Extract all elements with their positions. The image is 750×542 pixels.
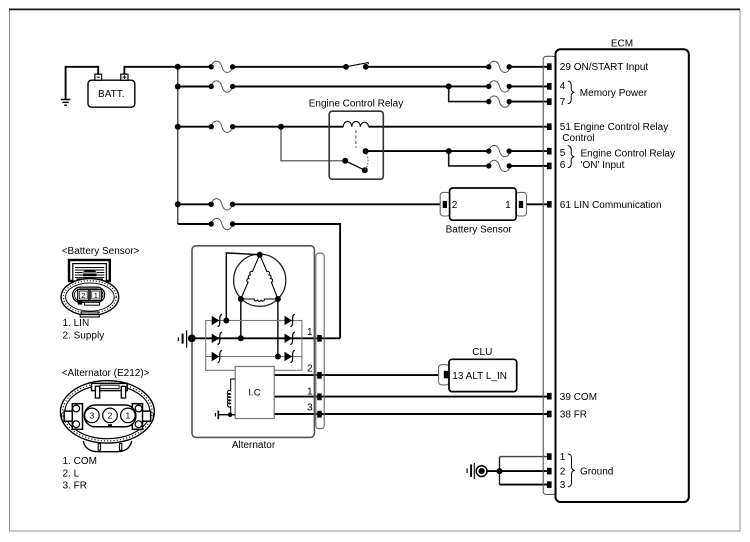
svg-text:ECM: ECM — [611, 38, 633, 49]
svg-text:Engine Control Relay: Engine Control Relay — [581, 149, 676, 160]
svg-text:Memory Power: Memory Power — [580, 88, 648, 99]
svg-text:39 COM: 39 COM — [560, 392, 597, 403]
svg-text:Alternator: Alternator — [232, 440, 276, 451]
svg-text:Control: Control — [562, 133, 594, 144]
svg-text:2: 2 — [452, 200, 458, 211]
svg-text:2: 2 — [81, 291, 85, 300]
svg-text:Ground: Ground — [580, 467, 613, 478]
svg-text:5: 5 — [560, 148, 566, 159]
svg-text:1: 1 — [560, 452, 566, 463]
svg-text:6: 6 — [560, 160, 566, 171]
svg-text:7: 7 — [560, 97, 566, 108]
svg-text:2. L: 2. L — [63, 468, 80, 479]
svg-text:1: 1 — [126, 411, 131, 421]
svg-text:3: 3 — [560, 480, 566, 491]
svg-text:38 FR: 38 FR — [560, 409, 587, 420]
svg-text:<Alternator (E212)>: <Alternator (E212)> — [62, 368, 150, 379]
svg-text:I.C: I.C — [248, 388, 260, 399]
svg-text:2: 2 — [560, 467, 566, 478]
svg-text:CLU: CLU — [472, 347, 492, 358]
svg-text:2: 2 — [307, 364, 313, 375]
svg-text:4: 4 — [560, 81, 566, 92]
svg-text:1: 1 — [307, 327, 313, 338]
svg-text:3: 3 — [90, 411, 95, 421]
svg-text:<Battery Sensor>: <Battery Sensor> — [62, 246, 140, 257]
svg-text:51 Engine Control Relay: 51 Engine Control Relay — [560, 122, 668, 133]
svg-text:1: 1 — [94, 291, 98, 300]
svg-text:2: 2 — [108, 411, 113, 421]
svg-text:Engine Control Relay: Engine Control Relay — [309, 99, 404, 110]
svg-text:29 ON/START Input: 29 ON/START Input — [560, 62, 649, 73]
svg-text:’ON’ Input: ’ON’ Input — [580, 160, 624, 171]
svg-text:3: 3 — [307, 402, 313, 413]
svg-text:1: 1 — [505, 200, 511, 211]
svg-text:3. FR: 3. FR — [63, 481, 87, 492]
svg-text:61 LIN Communication: 61 LIN Communication — [560, 200, 662, 211]
svg-text:1: 1 — [307, 386, 313, 397]
svg-text:2. Supply: 2. Supply — [63, 330, 105, 341]
svg-text:1. LIN: 1. LIN — [63, 318, 90, 329]
svg-text:Battery Sensor: Battery Sensor — [446, 225, 513, 236]
svg-text:13 ALT L_IN: 13 ALT L_IN — [452, 371, 507, 382]
svg-text:1. COM: 1. COM — [63, 456, 97, 467]
svg-text:BATT.: BATT. — [98, 89, 124, 100]
